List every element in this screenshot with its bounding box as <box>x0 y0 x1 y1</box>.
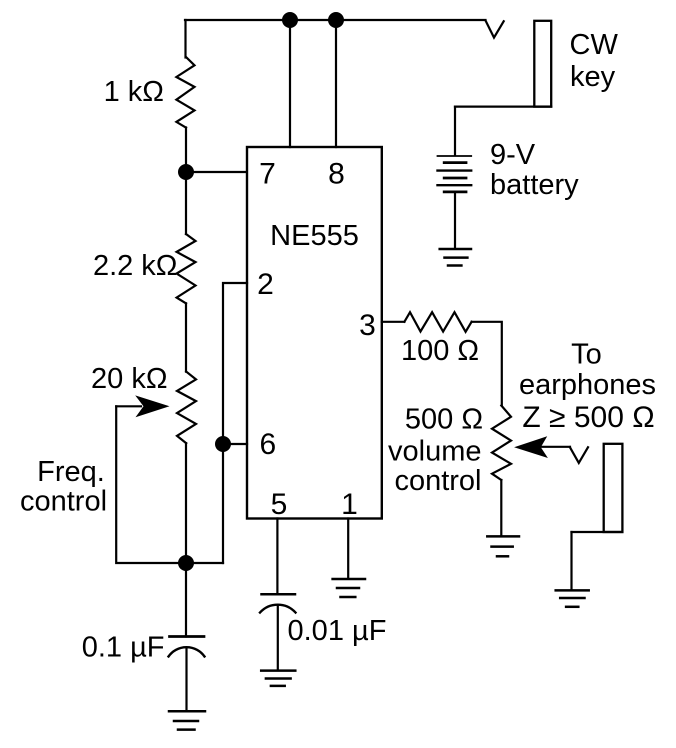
svg-text:6: 6 <box>259 428 276 461</box>
capacitor C1 0.1 uF top plate <box>170 635 205 638</box>
battery B1 9V plates <box>438 155 472 157</box>
wire R4 to volume pot <box>472 322 502 406</box>
wiper arrow of R3 <box>135 395 169 417</box>
svg-text:key: key <box>570 61 616 93</box>
wire pin 2 route <box>223 283 247 563</box>
svg-text:1 kΩ: 1 kΩ <box>104 76 164 108</box>
wire left rail top segment <box>184 20 186 58</box>
ground below battery <box>440 248 471 251</box>
svg-text:5: 5 <box>271 488 288 521</box>
svg-text:0.01 µF: 0.01 µF <box>288 615 387 647</box>
wire C1 to ground <box>185 649 187 711</box>
wire C2 to ground <box>277 606 279 670</box>
capacitor C1 0.1 uF curved plate <box>169 647 205 656</box>
svg-text:100 Ω: 100 Ω <box>401 335 479 367</box>
resistor R1 1 kOhm <box>176 57 194 128</box>
wiper arrow of R5 <box>514 436 548 458</box>
node junction dot bottom of divider <box>178 555 194 571</box>
wire key bottom to battery <box>455 105 551 107</box>
wire pin 6 <box>223 443 247 445</box>
svg-text:9-V: 9-V <box>490 139 536 171</box>
ground below volume pot <box>487 535 519 538</box>
svg-text:20 kΩ: 20 kΩ <box>91 363 168 395</box>
node junction dot on rail right <box>328 12 344 28</box>
svg-text:Z ≥ 500 Ω: Z ≥ 500 Ω <box>522 401 654 434</box>
wire Vcc drop to box top left <box>289 20 291 147</box>
svg-text:earphones: earphones <box>519 369 656 401</box>
svg-text:control: control <box>20 486 107 518</box>
potentiometer R3 20 kOhm <box>177 372 196 444</box>
earphone plug body <box>604 444 623 532</box>
wire plug to ground <box>570 532 572 589</box>
wire pin 1 down <box>347 519 349 579</box>
svg-text:0.1 µF: 0.1 µF <box>82 632 165 664</box>
ground below pin 1 <box>333 578 365 581</box>
svg-text:3: 3 <box>359 309 376 342</box>
wire Vcc drop to box top pin 8 <box>335 20 337 147</box>
wire top supply rail <box>185 19 486 21</box>
wire left rail below R3 <box>185 443 187 636</box>
svg-text:8: 8 <box>328 158 345 191</box>
svg-text:2.2 kΩ: 2.2 kΩ <box>93 250 178 282</box>
svg-text:2: 2 <box>257 268 274 301</box>
svg-text:volume: volume <box>388 436 482 468</box>
ground below C2 <box>261 669 295 672</box>
svg-text:To: To <box>571 339 602 371</box>
svg-text:500 Ω: 500 Ω <box>405 404 483 436</box>
ground below earphone plug <box>556 589 589 592</box>
ground below C1 <box>169 710 205 713</box>
svg-text:CW: CW <box>570 29 619 61</box>
CW key lever body <box>534 21 551 107</box>
wire wiper lead <box>116 405 141 407</box>
node junction dot pin6 <box>215 436 231 452</box>
svg-text:1: 1 <box>341 488 358 521</box>
capacitor C2 0.01 uF curved plate <box>260 605 296 613</box>
wire pot bottom to ground <box>500 480 502 536</box>
svg-text:NE555: NE555 <box>270 220 359 252</box>
wire pin 3 out <box>382 321 405 323</box>
resistor R2 2.2 kOhm <box>177 234 196 303</box>
node junction dot on rail left <box>282 12 298 28</box>
potentiometer R5 500 Ohm volume <box>492 406 511 481</box>
wire key contact V at end of rail <box>486 21 504 38</box>
wire wiper lead to phone plug <box>541 446 570 448</box>
node junction dot pin7 tap <box>178 164 194 180</box>
wire pin 5 down <box>276 519 278 595</box>
wire left rail between R1 and R2 <box>185 128 187 235</box>
svg-text:battery: battery <box>490 169 579 201</box>
IC U1 NE555 box <box>247 147 382 519</box>
wire plug sleeve bottom <box>572 531 623 533</box>
capacitor C2 0.01 uF top plate <box>262 593 296 596</box>
svg-text:control: control <box>394 465 481 497</box>
wire battery to ground <box>454 193 456 249</box>
wire freq control feedback <box>116 406 223 563</box>
wire phone plug contact V <box>570 447 588 463</box>
svg-text:Freq.: Freq. <box>37 456 105 488</box>
wire pin 7 <box>186 171 247 173</box>
resistor R4 100 Ohm <box>404 312 471 332</box>
wire left rail between R2 and R3 <box>185 303 187 371</box>
svg-text:7: 7 <box>259 158 276 191</box>
